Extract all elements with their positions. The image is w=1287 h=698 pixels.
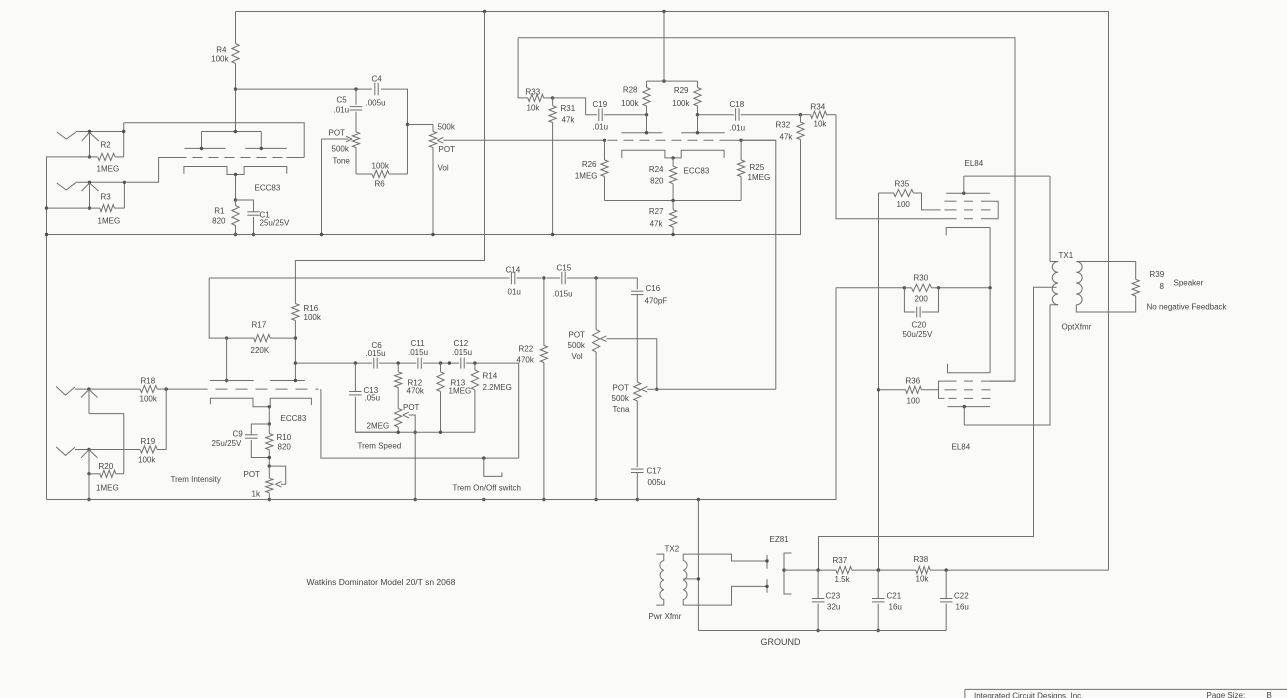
svg-text:POT: POT <box>439 145 456 154</box>
capacitor C5 <box>355 89 357 105</box>
node cathode RC junction <box>234 198 237 201</box>
node C22 top <box>945 568 948 571</box>
svg-text:R39: R39 <box>1150 270 1165 279</box>
node R1 ground <box>234 233 237 236</box>
svg-text:EL84: EL84 <box>965 159 984 168</box>
node pot1k top <box>268 464 271 467</box>
transformer TX1 primary <box>1049 176 1051 261</box>
node rail TX2 drop <box>697 498 700 501</box>
svg-text:1MEG: 1MEG <box>748 173 771 182</box>
node switch ground <box>482 498 485 501</box>
node R30 left <box>903 286 906 289</box>
resistor R26 <box>604 140 606 160</box>
svg-text:GROUND: GROUND <box>761 637 801 647</box>
node B+ rail junction at trem feed <box>483 10 486 13</box>
tube V1 bracket <box>991 201 999 219</box>
svg-text:C11: C11 <box>411 339 426 348</box>
wire J1 tip <box>76 131 124 133</box>
transformer TX2 secondary <box>682 554 684 560</box>
resistor R36 <box>879 389 906 391</box>
wire R18/R19 join <box>165 389 167 449</box>
resistor R37 <box>836 567 852 574</box>
node trem plate left <box>225 379 228 382</box>
potentiometer 2MEG Trem Speed <box>395 409 402 428</box>
svg-text:1MEG: 1MEG <box>449 387 472 396</box>
capacitor C1 <box>236 200 254 212</box>
node PI plate feed <box>662 79 665 82</box>
wire cathode bus <box>836 287 904 289</box>
svg-text:Pwr Xfmr: Pwr Xfmr <box>649 612 682 621</box>
svg-text:.015u: .015u <box>452 348 472 357</box>
node rail left spine <box>45 233 48 236</box>
wire TX2 ground drop <box>697 500 699 631</box>
wiper Tona <box>641 387 647 393</box>
node C14/C15/R22 <box>542 276 545 279</box>
svg-text:R31: R31 <box>561 104 576 113</box>
svg-text:C12: C12 <box>454 339 469 348</box>
svg-text:R32: R32 <box>776 121 791 130</box>
node tone output <box>406 123 409 126</box>
svg-text:2MEG: 2MEG <box>367 422 390 431</box>
svg-text:R34: R34 <box>811 103 826 112</box>
svg-text:10k: 10k <box>527 104 541 113</box>
capacitor C23 <box>817 570 819 598</box>
svg-text:500k: 500k <box>332 145 350 154</box>
jack J3 tip lever <box>56 387 75 396</box>
svg-text:Page Size:: Page Size: <box>1207 691 1246 698</box>
tube V2 bracket <box>939 381 945 398</box>
svg-text:B: B <box>1267 691 1272 698</box>
capacitor C16 <box>631 290 644 292</box>
svg-text:C21: C21 <box>887 592 902 601</box>
node EZ81 output <box>782 568 785 571</box>
node U3 cathode <box>268 405 271 408</box>
svg-text:500k: 500k <box>568 341 586 350</box>
svg-text:47k: 47k <box>650 220 664 229</box>
capacitor C20 <box>904 288 915 312</box>
node R18 output <box>165 387 168 390</box>
wire TX2 center tap <box>683 578 698 580</box>
svg-text:EL84: EL84 <box>952 443 971 452</box>
svg-text:1MEG: 1MEG <box>98 217 121 226</box>
resistor R22 <box>543 278 545 346</box>
svg-text:No negative Feedback: No negative Feedback <box>1147 303 1228 312</box>
wire PI plate rail <box>647 80 698 82</box>
svg-text:R17: R17 <box>252 321 267 330</box>
svg-text:R26: R26 <box>582 160 597 169</box>
node R27 ground <box>671 233 674 236</box>
svg-text:1MEG: 1MEG <box>97 165 120 174</box>
svg-text:100k: 100k <box>138 456 156 465</box>
resistor R32 <box>800 115 802 122</box>
svg-text:C22: C22 <box>954 592 969 601</box>
svg-text:8: 8 <box>1160 282 1165 291</box>
svg-text:200: 200 <box>915 295 929 304</box>
svg-text:POT: POT <box>569 331 586 340</box>
svg-text:Tcna: Tcna <box>613 405 630 414</box>
svg-text:.01u: .01u <box>334 106 350 115</box>
node R28 bottom <box>645 113 648 116</box>
node 2MEG wiper ground <box>414 498 417 501</box>
svg-text:C19: C19 <box>593 100 608 109</box>
svg-text:.01u: .01u <box>730 124 746 133</box>
wire B+ filter line <box>784 569 836 571</box>
svg-text:470k: 470k <box>407 387 425 396</box>
node trem switch tap <box>482 456 485 459</box>
tube U2 plate left <box>621 132 662 134</box>
tube U1 plate right <box>260 132 262 149</box>
resistor R14 <box>474 363 476 370</box>
svg-text:25u/25V: 25u/25V <box>212 439 242 448</box>
resistor R12 <box>397 363 399 372</box>
wire V2 plate to TX1 <box>964 305 1050 425</box>
wire TX1 center tap <box>819 287 1057 570</box>
node R33/R31/C19 <box>551 96 554 99</box>
svg-text:TX1: TX1 <box>1059 251 1074 260</box>
svg-text:C15: C15 <box>557 264 572 273</box>
svg-text:.015u: .015u <box>553 290 573 299</box>
resistor R25 <box>740 140 742 160</box>
capacitor C22 <box>945 570 947 598</box>
resistor R29 <box>697 81 699 87</box>
switch Trem On/Off <box>484 458 502 476</box>
svg-text:R24: R24 <box>649 165 664 174</box>
node spine R3 junction <box>45 206 48 209</box>
svg-text:16u: 16u <box>889 603 902 612</box>
svg-text:C14: C14 <box>506 266 521 275</box>
tube EZ81 cathode <box>784 553 792 594</box>
svg-text:1MEG: 1MEG <box>96 484 119 493</box>
node cathode bus center <box>671 199 674 202</box>
wiper Vol pot to PI grid <box>437 138 443 144</box>
capacitor C17 <box>631 468 644 470</box>
svg-text:470k: 470k <box>517 356 535 365</box>
tube EZ81 plate 1 <box>766 555 768 569</box>
svg-text:Trem Intensity: Trem Intensity <box>171 475 221 484</box>
svg-text:16u: 16u <box>956 603 969 612</box>
svg-text:R30: R30 <box>914 274 929 283</box>
wire R2 riser <box>123 123 125 157</box>
wire ch1 input over tube <box>124 123 305 158</box>
resistor R1 <box>235 200 237 206</box>
node C21 ground <box>877 629 880 632</box>
node R22 ground <box>542 498 545 501</box>
svg-text:100: 100 <box>907 397 921 406</box>
node R13 top <box>439 361 442 364</box>
svg-text:R20: R20 <box>99 462 114 471</box>
capacitor C11 <box>417 358 419 369</box>
svg-text:.01u: .01u <box>593 123 609 132</box>
wire R3 riser <box>123 182 125 208</box>
svg-text:R19: R19 <box>141 437 156 446</box>
tube V2 suppressor <box>949 397 957 399</box>
node J2 ground <box>88 206 91 209</box>
node C23 top <box>816 568 819 571</box>
node R17 right <box>294 336 297 339</box>
transformer TX2 primary <box>656 554 664 560</box>
node C9 top junction <box>268 422 271 425</box>
tube V2 grid <box>945 380 957 382</box>
svg-text:47k: 47k <box>780 133 794 142</box>
svg-text:C18: C18 <box>730 100 745 109</box>
node C18/R32/R34 <box>799 113 802 116</box>
svg-text:100: 100 <box>897 200 911 209</box>
svg-text:1MEG: 1MEG <box>575 172 598 181</box>
svg-text:100k: 100k <box>672 99 690 108</box>
svg-text:R18: R18 <box>141 377 156 386</box>
capacitor C19 <box>553 98 598 115</box>
wire R17 plate riser <box>226 338 228 380</box>
svg-text:R25: R25 <box>750 163 765 172</box>
wire J3 shunt to R20 <box>89 414 124 474</box>
tube V2 cathode <box>948 364 991 373</box>
wire trem B+ feed <box>295 12 484 304</box>
resistor R33 <box>518 38 528 98</box>
wire C6 chain <box>295 362 372 364</box>
wire to Vol pot <box>408 124 434 126</box>
capacitor C15 <box>561 272 563 285</box>
svg-text:R27: R27 <box>649 207 664 216</box>
svg-text:R16: R16 <box>304 304 319 313</box>
wire U3 cathode stem <box>268 407 270 424</box>
svg-text:1k: 1k <box>252 490 261 499</box>
svg-text:R36: R36 <box>906 377 921 386</box>
resistor R39 speaker load <box>1132 279 1139 296</box>
svg-text:100k: 100k <box>621 99 639 108</box>
jack J1 shunt contact <box>82 133 99 142</box>
svg-text:100k: 100k <box>304 313 322 322</box>
node R13 bus <box>439 431 442 434</box>
tube U3 cathode <box>210 398 311 407</box>
node TX2 center tap ground <box>697 577 700 580</box>
node R12 top <box>397 361 400 364</box>
node J4 tip <box>87 448 90 451</box>
node Vol2 ground <box>594 498 597 501</box>
node R20 left <box>87 472 90 475</box>
wire J2 tip <box>76 181 125 183</box>
capacitor C6 <box>373 358 375 369</box>
jack J4 tip lever <box>56 447 75 456</box>
tube V1 cathode <box>946 228 990 236</box>
svg-text:C17: C17 <box>647 467 662 476</box>
tube U3 grid <box>196 388 319 390</box>
svg-text:47k: 47k <box>562 116 576 125</box>
jack J3 shunt <box>81 390 98 398</box>
wire second rail to lower EL84 grid <box>518 38 1015 381</box>
wire TX2 HT top to EZ81 <box>683 554 767 561</box>
svg-text:ECC83: ECC83 <box>684 167 710 176</box>
svg-text:R2: R2 <box>101 141 112 150</box>
wiper Tone pot <box>346 136 352 142</box>
node C21 top <box>877 568 880 571</box>
svg-text:R10: R10 <box>277 433 292 442</box>
svg-text:100k: 100k <box>140 395 158 404</box>
resistor R35 <box>879 192 894 194</box>
svg-text:C20: C20 <box>912 321 927 330</box>
node trem plate right <box>294 379 297 382</box>
resistor R20 <box>89 473 100 475</box>
wire V1 plate to TX1 <box>964 175 1050 177</box>
tube U2 cathode <box>622 150 724 158</box>
svg-text:POT: POT <box>244 470 261 479</box>
wire J4 shunt to ground <box>88 474 90 500</box>
svg-text:50u/25V: 50u/25V <box>903 330 933 339</box>
svg-text:470pF: 470pF <box>645 297 668 306</box>
svg-text:R28: R28 <box>623 86 638 95</box>
tube U1 plate rail <box>202 131 262 133</box>
svg-text:R4: R4 <box>216 46 227 55</box>
svg-text:EZ81: EZ81 <box>770 535 790 544</box>
wiper 2MEG pot <box>403 412 409 418</box>
resistor R34 <box>801 114 811 116</box>
svg-text:.015u: .015u <box>408 348 428 357</box>
svg-text:01u: 01u <box>508 288 521 297</box>
wire feedback to grid <box>321 389 519 458</box>
title block border <box>965 688 1287 690</box>
resistor R13 <box>440 363 442 372</box>
svg-text:R33: R33 <box>526 88 541 97</box>
wire J4 tip <box>75 449 90 451</box>
svg-text:005u: 005u <box>648 478 666 487</box>
node U2 cathode <box>671 156 674 159</box>
tube V2 screen <box>945 389 957 391</box>
svg-text:R6: R6 <box>375 180 386 189</box>
svg-text:Trem On/Off switch: Trem On/Off switch <box>453 484 521 493</box>
svg-text:C16: C16 <box>646 284 661 293</box>
resistor R2 <box>90 156 98 158</box>
node C13 top <box>354 361 357 364</box>
resistor R18 <box>90 388 141 390</box>
tube U3 plate right <box>270 380 305 382</box>
node J2 tip <box>88 181 91 184</box>
capacitor C13 <box>354 363 356 391</box>
capacitor C21 <box>877 570 879 598</box>
wire ch2 input to grid <box>124 158 176 183</box>
svg-text:Speaker: Speaker <box>1174 279 1204 288</box>
svg-text:Trem Speed: Trem Speed <box>358 442 402 451</box>
resistor R6 <box>356 173 372 175</box>
svg-text:POT: POT <box>329 129 346 138</box>
svg-text:ECC83: ECC83 <box>255 184 281 193</box>
jack J1 tip lever <box>57 132 76 139</box>
resistor R19 <box>90 449 141 451</box>
wiper Vol2 <box>600 336 606 342</box>
node J4 ground <box>87 498 90 501</box>
potentiometer Vol 500k <box>432 125 434 132</box>
svg-text:POT: POT <box>613 384 630 393</box>
resistor R31 <box>552 98 554 106</box>
wire J1 ground to spine <box>47 157 90 500</box>
wire screen supply line <box>878 193 880 570</box>
tube U1 grid <box>177 157 287 159</box>
node 2MEG wiper bus <box>414 431 417 434</box>
svg-text:2.2MEG: 2.2MEG <box>483 383 512 392</box>
tube U2 plate right <box>681 132 725 134</box>
node R30 right <box>937 286 940 289</box>
node R12 bus <box>397 431 400 434</box>
svg-text:820: 820 <box>278 443 292 452</box>
wire tone stack feed <box>236 88 373 90</box>
potentiometer Tona 500k <box>634 382 641 401</box>
wire preamp ground rail <box>47 234 801 236</box>
node U2 grid right <box>739 139 742 142</box>
node R14 top <box>473 361 476 364</box>
node R36 tap <box>877 388 880 391</box>
node U1 plate rail feed <box>234 130 237 133</box>
svg-text:R37: R37 <box>833 556 848 565</box>
node R4 plate node <box>234 87 237 90</box>
node B+ rail junction at PI plate feed <box>662 10 665 13</box>
resistor R24 <box>672 158 674 166</box>
tube V1 suppressor <box>945 200 957 202</box>
wire trem channel output <box>657 388 776 390</box>
svg-text:C4: C4 <box>372 75 383 84</box>
svg-text:C23: C23 <box>826 592 841 601</box>
tube U3 plate left <box>210 380 254 382</box>
potentiometer 1k Trem Intensity <box>268 466 270 478</box>
wire U1 cathode stem <box>235 175 237 201</box>
node Tona wiper junction <box>655 388 658 391</box>
wiper pot1k <box>269 466 285 484</box>
resistor R38 <box>916 567 930 574</box>
svg-text:Vol: Vol <box>572 352 583 361</box>
svg-text:TX2: TX2 <box>665 545 680 554</box>
svg-text:C9: C9 <box>233 430 244 439</box>
node J2 tip/R3 <box>123 181 126 184</box>
svg-text:220K: 220K <box>251 346 270 355</box>
resistor R10 <box>268 424 270 434</box>
resistor R17 <box>227 337 254 339</box>
svg-text:R22: R22 <box>519 345 534 354</box>
svg-text:25u/25V: 25u/25V <box>260 219 290 228</box>
svg-text:R3: R3 <box>101 193 112 202</box>
wire lower ground rail <box>47 288 837 500</box>
jack J2 tip lever <box>57 183 76 190</box>
node pot1k ground <box>268 498 271 501</box>
svg-text:Tone: Tone <box>333 157 351 166</box>
capacitor C18 <box>698 114 734 116</box>
tube U2 grid <box>608 139 730 141</box>
resistor R27 <box>670 210 677 227</box>
node cathode riser <box>988 286 991 289</box>
svg-text:500k: 500k <box>438 123 456 132</box>
tube V1 screen <box>945 209 957 211</box>
transformer TX1 secondary <box>1076 262 1082 305</box>
resistor R30 <box>912 284 932 291</box>
svg-text:10k: 10k <box>814 120 828 129</box>
svg-text:100k: 100k <box>211 55 229 64</box>
tube V1 plate <box>946 192 990 194</box>
svg-text:820: 820 <box>212 217 226 226</box>
node C1 ground <box>252 233 255 236</box>
svg-text:POT: POT <box>403 403 420 412</box>
node R17 left <box>225 336 228 339</box>
svg-text:32u: 32u <box>827 603 840 612</box>
node rail tone wiper <box>320 233 323 236</box>
wire power ground rail <box>698 630 946 632</box>
node U1 cathode <box>234 173 237 176</box>
node U2 grid left <box>603 139 606 142</box>
node Vol2 top <box>594 276 597 279</box>
node C6 chain tap <box>294 361 297 364</box>
svg-text:Vol: Vol <box>438 164 449 173</box>
tube EZ81 plate 2 <box>766 579 768 593</box>
resistor R16 <box>292 304 299 321</box>
node C17 ground <box>636 498 639 501</box>
svg-text:.015u: .015u <box>366 349 386 358</box>
node J1 ground <box>88 155 91 158</box>
svg-text:Integrated Circuit Designs, In: Integrated Circuit Designs, Inc <box>974 692 1081 698</box>
